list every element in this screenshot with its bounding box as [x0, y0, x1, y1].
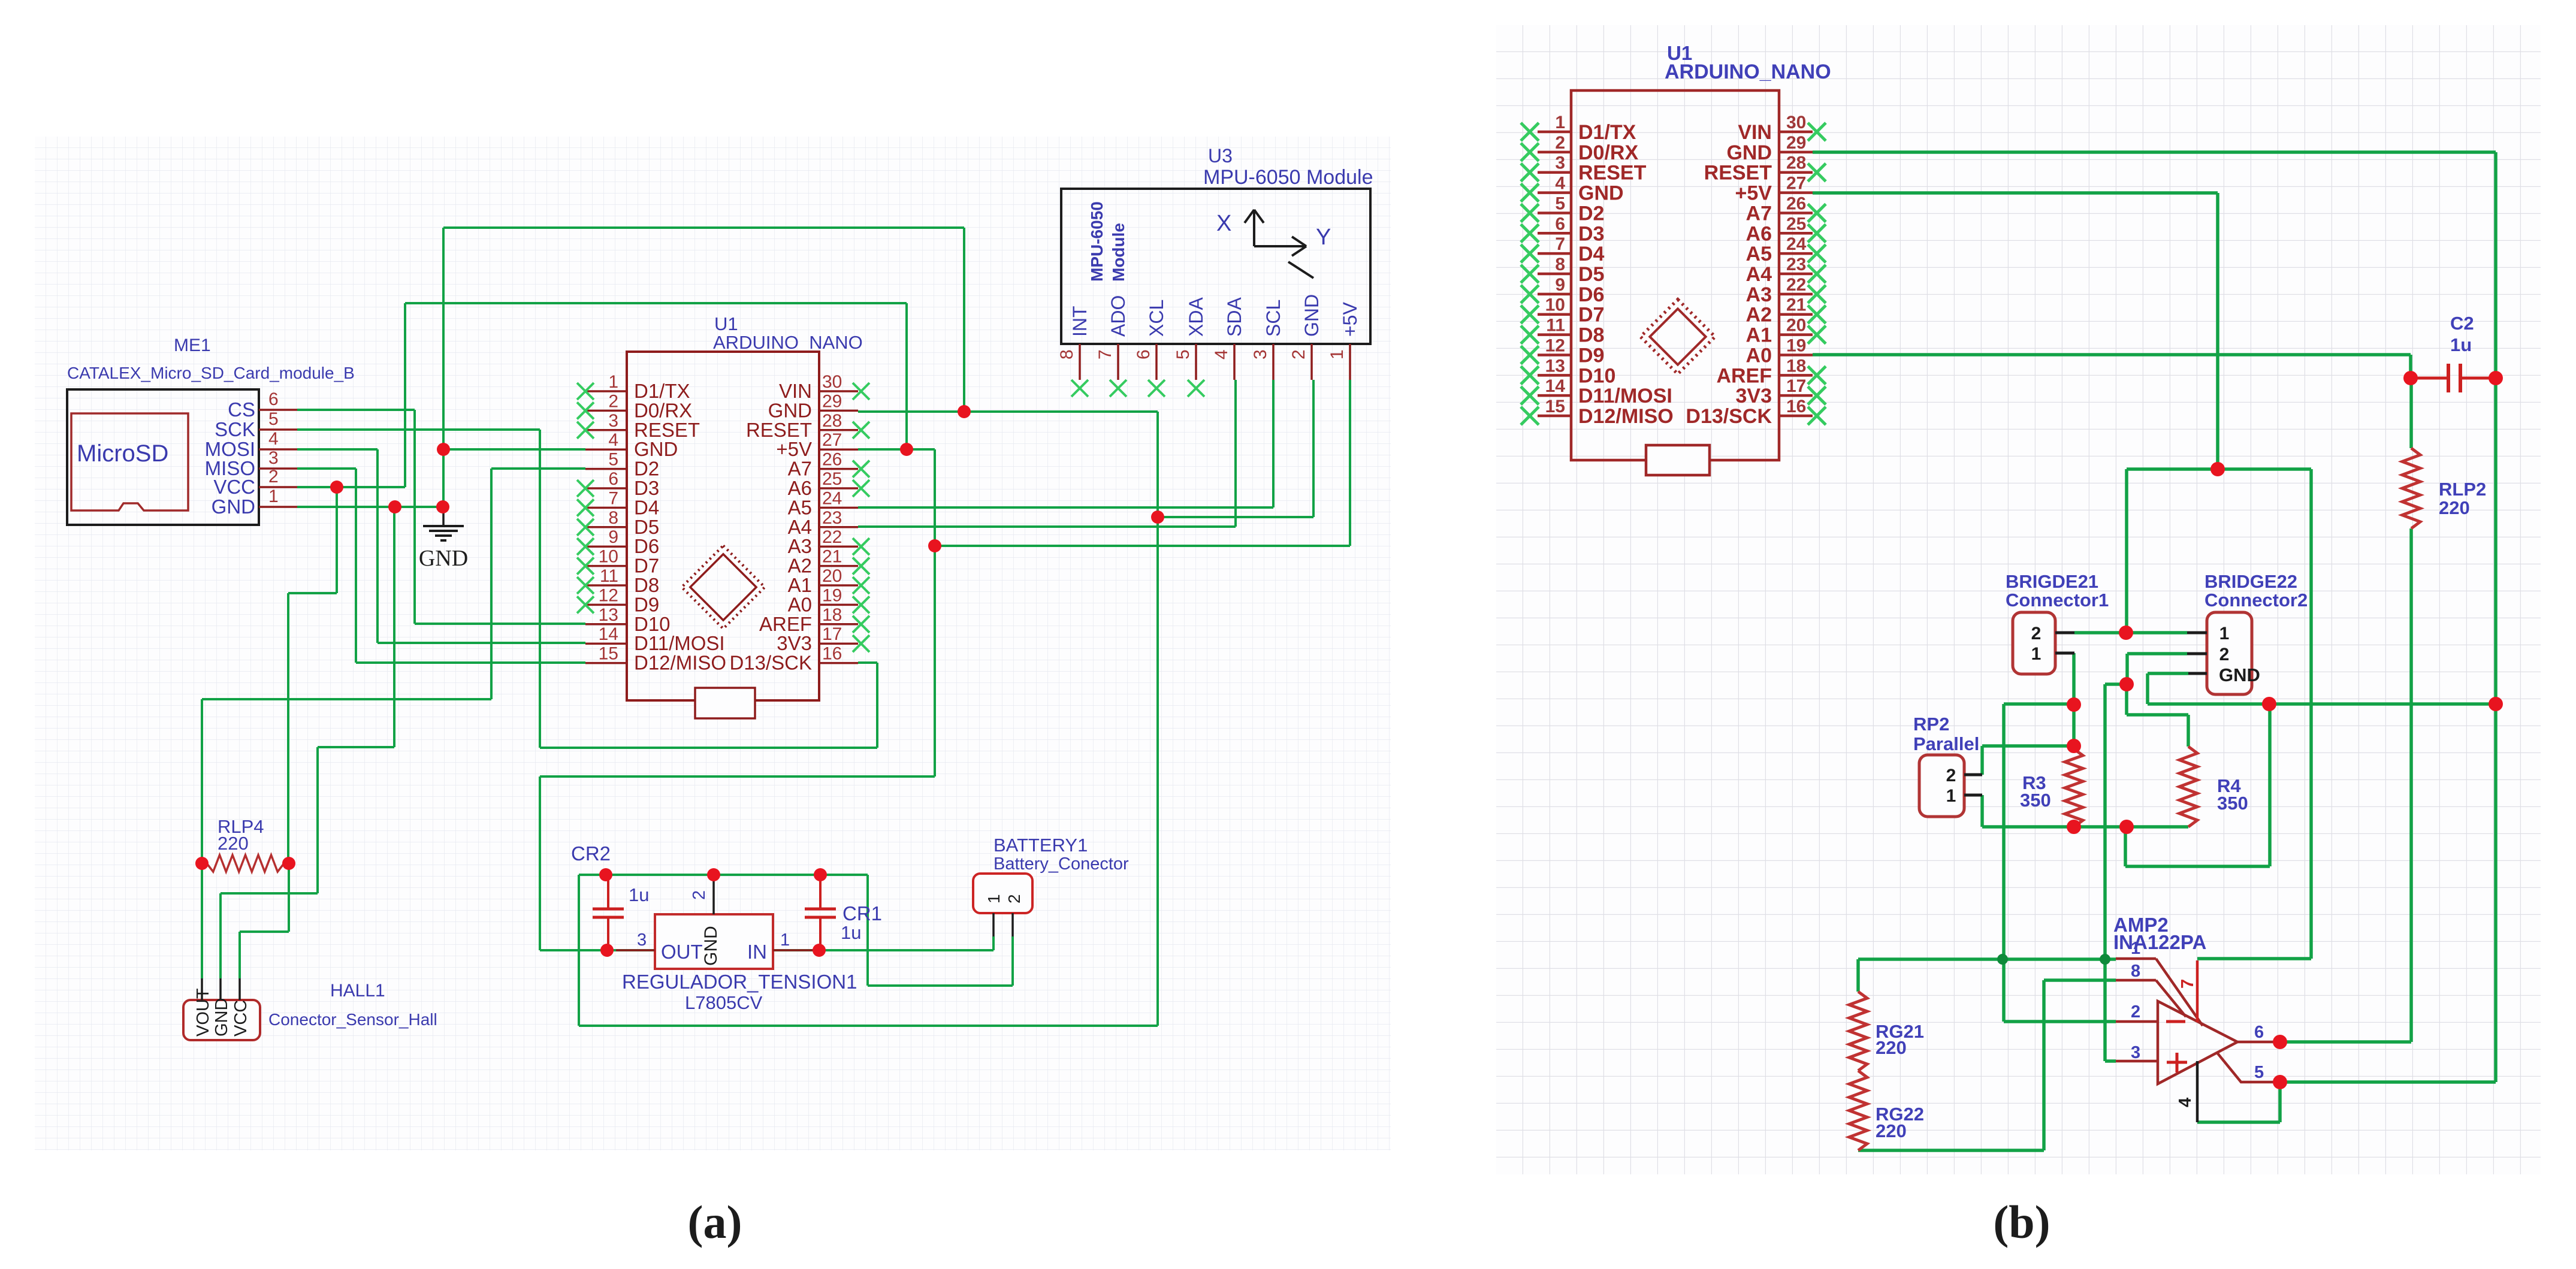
svg-text:7: 7 — [1095, 349, 1115, 359]
svg-text:18: 18 — [1786, 356, 1806, 376]
svg-text:20: 20 — [1786, 316, 1806, 336]
svg-text:VIN: VIN — [1738, 121, 1772, 144]
svg-text:A0: A0 — [1746, 344, 1772, 367]
svg-text:ARDUINO_NANO: ARDUINO_NANO — [1665, 61, 1831, 83]
svg-text:SDA: SDA — [1224, 297, 1245, 337]
svg-text:4: 4 — [2176, 1098, 2195, 1107]
svg-text:7: 7 — [1555, 234, 1565, 254]
svg-text:VCC: VCC — [213, 476, 255, 498]
svg-text:Y: Y — [1316, 225, 1331, 250]
svg-text:14: 14 — [1545, 376, 1566, 396]
svg-text:X: X — [1216, 211, 1231, 236]
svg-text:3: 3 — [637, 930, 647, 950]
svg-text:5: 5 — [608, 450, 618, 470]
svg-text:MPU-6050: MPU-6050 — [1088, 201, 1106, 282]
svg-text:1: 1 — [2131, 939, 2140, 958]
svg-text:XDA: XDA — [1185, 297, 1207, 337]
svg-text:AREF: AREF — [1716, 364, 1772, 387]
svg-text:350: 350 — [2020, 790, 2051, 811]
svg-text:INT: INT — [1069, 306, 1091, 337]
svg-text:25: 25 — [1786, 214, 1806, 234]
svg-text:5: 5 — [1173, 349, 1193, 359]
svg-text:2: 2 — [2131, 1002, 2140, 1022]
svg-text:5: 5 — [268, 409, 279, 429]
svg-text:2: 2 — [1005, 894, 1023, 904]
svg-text:Parallel: Parallel — [1913, 733, 1979, 754]
svg-text:9: 9 — [608, 527, 618, 547]
svg-text:A6: A6 — [1746, 222, 1772, 245]
svg-text:Conector_Sensor_Hall: Conector_Sensor_Hall — [268, 1010, 437, 1029]
svg-text:220: 220 — [1876, 1037, 1907, 1058]
svg-text:6: 6 — [1555, 214, 1565, 234]
svg-text:26: 26 — [822, 450, 842, 470]
svg-text:7: 7 — [608, 488, 618, 508]
svg-text:Connector1: Connector1 — [2006, 590, 2109, 611]
svg-text:1: 1 — [2031, 644, 2042, 664]
svg-text:2: 2 — [1555, 133, 1565, 153]
svg-text:2: 2 — [2031, 624, 2042, 643]
svg-text:2: 2 — [2219, 645, 2230, 664]
svg-text:25: 25 — [822, 469, 842, 489]
svg-text:16: 16 — [822, 644, 842, 664]
svg-text:27: 27 — [1786, 174, 1806, 194]
svg-text:3: 3 — [2131, 1043, 2140, 1062]
svg-text:A3: A3 — [1746, 283, 1772, 306]
svg-text:4: 4 — [268, 429, 279, 449]
svg-text:2: 2 — [1946, 766, 1956, 785]
svg-text:23: 23 — [822, 508, 842, 528]
svg-text:U1: U1 — [714, 313, 738, 334]
svg-text:SCK: SCK — [215, 418, 255, 440]
svg-text:ME1: ME1 — [174, 336, 211, 355]
svg-text:29: 29 — [822, 391, 842, 411]
svg-text:INA122PA: INA122PA — [2113, 931, 2206, 953]
svg-text:4: 4 — [1555, 174, 1565, 194]
svg-text:D3: D3 — [1578, 222, 1604, 245]
svg-text:GND: GND — [1726, 141, 1772, 164]
svg-text:5: 5 — [2254, 1063, 2264, 1082]
svg-text:30: 30 — [822, 372, 842, 392]
svg-text:1: 1 — [268, 487, 279, 506]
svg-text:BRIDGE22: BRIDGE22 — [2204, 571, 2297, 592]
svg-text:GND: GND — [1578, 182, 1624, 205]
svg-text:1: 1 — [985, 894, 1003, 904]
svg-text:CR1: CR1 — [842, 902, 882, 924]
svg-text:30: 30 — [1786, 113, 1806, 132]
svg-text:RLP2: RLP2 — [2439, 479, 2486, 500]
svg-text:9: 9 — [1555, 275, 1565, 295]
svg-text:3: 3 — [268, 448, 279, 468]
svg-text:19: 19 — [1786, 336, 1806, 355]
svg-text:1: 1 — [1327, 349, 1347, 359]
svg-text:Connector2: Connector2 — [2204, 590, 2308, 611]
svg-text:VOUT: VOUT — [194, 988, 213, 1037]
svg-text:21: 21 — [822, 547, 842, 567]
svg-text:4: 4 — [608, 430, 618, 450]
svg-text:2: 2 — [1289, 349, 1309, 359]
svg-text:Battery_Conector: Battery_Conector — [993, 854, 1129, 874]
svg-text:RESET: RESET — [1704, 162, 1772, 185]
svg-text:8: 8 — [1555, 255, 1565, 274]
svg-text:MicroSD: MicroSD — [77, 440, 168, 467]
svg-text:10: 10 — [1545, 295, 1565, 315]
svg-text:20: 20 — [822, 566, 842, 586]
svg-text:2: 2 — [268, 467, 279, 487]
svg-text:6: 6 — [268, 389, 279, 409]
svg-text:18: 18 — [822, 605, 842, 625]
svg-text:CR2: CR2 — [571, 842, 611, 865]
svg-text:8: 8 — [608, 508, 618, 528]
svg-text:ARDUINO_NANO: ARDUINO_NANO — [713, 332, 863, 353]
svg-text:350: 350 — [2217, 793, 2248, 814]
svg-text:+5V: +5V — [1339, 302, 1361, 337]
svg-text:XCL: XCL — [1146, 300, 1167, 337]
svg-text:1: 1 — [780, 930, 790, 950]
svg-text:D5: D5 — [1578, 263, 1604, 286]
svg-text:1: 1 — [1555, 113, 1565, 132]
svg-text:13: 13 — [1545, 356, 1565, 376]
svg-text:GND: GND — [701, 926, 721, 966]
svg-text:3: 3 — [1251, 349, 1270, 359]
svg-text:GND: GND — [212, 998, 231, 1037]
svg-text:15: 15 — [599, 644, 618, 664]
svg-text:24: 24 — [1786, 234, 1807, 254]
svg-text:21: 21 — [1786, 295, 1806, 315]
svg-text:D4: D4 — [1578, 243, 1605, 265]
svg-text:(a): (a) — [688, 1196, 742, 1248]
svg-text:Module: Module — [1109, 223, 1128, 282]
svg-text:CS: CS — [228, 398, 255, 421]
svg-text:22: 22 — [822, 527, 842, 547]
svg-text:A2: A2 — [1746, 304, 1772, 327]
svg-text:26: 26 — [1786, 194, 1806, 213]
svg-text:C2: C2 — [2450, 313, 2474, 334]
svg-text:RP2: RP2 — [1913, 714, 1949, 735]
svg-text:3: 3 — [1555, 153, 1565, 173]
svg-text:(b): (b) — [1993, 1196, 2050, 1248]
svg-text:BRIGDE21: BRIGDE21 — [2006, 571, 2098, 592]
svg-text:5: 5 — [1555, 194, 1565, 213]
svg-text:SCL: SCL — [1263, 300, 1284, 337]
svg-text:28: 28 — [1786, 153, 1806, 173]
svg-text:U3: U3 — [1208, 145, 1233, 167]
svg-text:A5: A5 — [1746, 243, 1772, 265]
svg-text:12: 12 — [599, 585, 618, 605]
svg-text:2: 2 — [608, 391, 618, 411]
svg-text:220: 220 — [218, 833, 249, 854]
svg-text:220: 220 — [2439, 497, 2470, 518]
svg-text:A7: A7 — [1746, 202, 1772, 225]
svg-text:8: 8 — [1057, 349, 1077, 359]
svg-text:CATALEX_Micro_SD_Card_module_B: CATALEX_Micro_SD_Card_module_B — [67, 364, 355, 382]
svg-text:D0/RX: D0/RX — [1578, 141, 1638, 164]
svg-text:24: 24 — [822, 488, 842, 508]
svg-text:6: 6 — [608, 469, 618, 489]
svg-text:6: 6 — [1134, 349, 1153, 359]
svg-text:A4: A4 — [1746, 263, 1772, 286]
svg-text:17: 17 — [1786, 376, 1806, 396]
svg-text:10: 10 — [599, 547, 618, 567]
svg-text:MPU-6050 Module: MPU-6050 Module — [1203, 166, 1373, 189]
svg-text:11: 11 — [600, 566, 618, 586]
svg-text:15: 15 — [1545, 397, 1565, 416]
svg-text:GND: GND — [419, 546, 468, 571]
svg-text:A1: A1 — [1746, 324, 1772, 347]
svg-text:1u: 1u — [629, 884, 649, 905]
svg-text:D7: D7 — [1578, 304, 1604, 327]
svg-text:3V3: 3V3 — [1736, 385, 1772, 407]
svg-text:GND: GND — [2219, 664, 2260, 685]
svg-text:D11/MOSI: D11/MOSI — [1578, 385, 1672, 407]
svg-text:1u: 1u — [2450, 334, 2472, 355]
svg-text:1: 1 — [1946, 786, 1956, 806]
svg-text:+5V: +5V — [1735, 182, 1772, 205]
svg-text:D8: D8 — [1578, 324, 1604, 347]
svg-text:29: 29 — [1786, 133, 1806, 153]
svg-text:OUT: OUT — [661, 941, 703, 963]
svg-text:17: 17 — [822, 624, 842, 644]
svg-text:D12/MISO: D12/MISO — [1578, 405, 1674, 428]
svg-text:BATTERY1: BATTERY1 — [993, 835, 1088, 856]
svg-text:6: 6 — [2254, 1023, 2264, 1042]
svg-text:7: 7 — [2178, 979, 2197, 989]
svg-text:D2: D2 — [1578, 202, 1604, 225]
svg-text:VCC: VCC — [231, 1000, 250, 1037]
svg-text:16: 16 — [1786, 397, 1806, 416]
svg-text:11: 11 — [1546, 316, 1565, 336]
svg-text:14: 14 — [599, 624, 618, 644]
svg-text:D6: D6 — [1578, 283, 1604, 306]
svg-text:19: 19 — [822, 585, 842, 605]
svg-text:4: 4 — [1212, 349, 1231, 359]
svg-text:1u: 1u — [841, 922, 861, 943]
svg-text:ADO: ADO — [1107, 295, 1129, 337]
svg-text:28: 28 — [822, 411, 842, 431]
svg-text:D13/SCK: D13/SCK — [729, 652, 812, 674]
svg-text:GND: GND — [212, 495, 255, 518]
svg-text:RESET: RESET — [1578, 162, 1647, 185]
svg-text:D9: D9 — [1578, 344, 1604, 367]
svg-text:D1/TX: D1/TX — [1578, 121, 1636, 144]
svg-text:1: 1 — [2219, 624, 2230, 643]
svg-text:2: 2 — [690, 890, 709, 900]
svg-text:IN: IN — [747, 941, 767, 963]
svg-text:GND: GND — [1301, 294, 1322, 337]
svg-text:HALL1: HALL1 — [330, 981, 385, 1001]
svg-text:23: 23 — [1786, 255, 1806, 274]
svg-text:27: 27 — [822, 430, 842, 450]
svg-text:12: 12 — [1545, 336, 1565, 355]
svg-text:22: 22 — [1786, 275, 1806, 295]
svg-text:1: 1 — [608, 372, 618, 392]
svg-text:13: 13 — [599, 605, 618, 625]
svg-text:L7805CV: L7805CV — [685, 992, 763, 1013]
svg-text:8: 8 — [2131, 962, 2140, 981]
svg-text:D12/MISO: D12/MISO — [634, 652, 726, 674]
svg-text:3: 3 — [608, 411, 618, 431]
svg-text:D10: D10 — [1578, 364, 1615, 387]
svg-text:D13/SCK: D13/SCK — [1686, 405, 1772, 428]
svg-text:220: 220 — [1876, 1120, 1907, 1141]
svg-text:REGULADOR_TENSION1: REGULADOR_TENSION1 — [622, 971, 857, 993]
